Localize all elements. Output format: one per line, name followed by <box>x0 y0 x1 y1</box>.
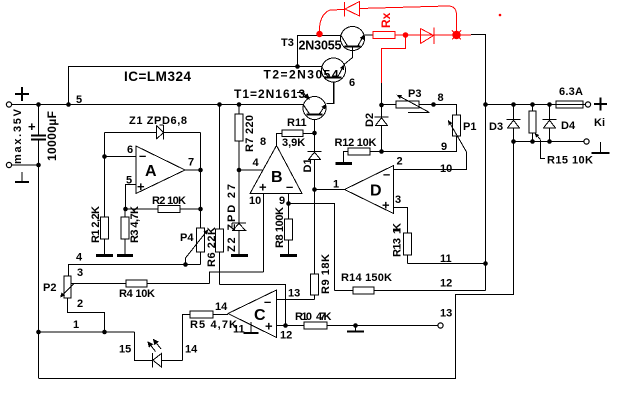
svg-text:D2: D2 <box>364 113 376 127</box>
svg-text:3: 3 <box>395 194 401 206</box>
resistor R7 220 <box>235 105 243 223</box>
ground output <box>592 142 610 153</box>
node ground tap <box>353 323 358 328</box>
label D4 <box>561 120 576 132</box>
svg-text:R15 10K: R15 10K <box>547 155 593 167</box>
node pin4 <box>237 168 242 173</box>
svg-text:–: – <box>264 294 271 309</box>
label Rx red <box>379 12 393 28</box>
op-amp U1A triangle <box>136 146 185 194</box>
svg-text:R5 4,7K: R5 4,7K <box>190 319 237 331</box>
op-amp U1C triangle <box>228 290 277 338</box>
label cap polarity + <box>28 119 36 134</box>
label R8 100K <box>274 207 286 248</box>
ground R8 <box>280 254 297 257</box>
terminal + output <box>585 98 607 111</box>
label 9 node <box>441 141 447 153</box>
label 4 pin <box>253 157 260 169</box>
svg-text:–: – <box>286 179 293 194</box>
diode D1 <box>308 133 322 190</box>
ground R10 <box>347 326 364 332</box>
zener Z2 ZPD27 <box>232 223 247 255</box>
svg-text:7: 7 <box>188 157 194 169</box>
wire 0V return loop <box>39 142 514 379</box>
arrow R15 wiper <box>535 133 539 138</box>
wire jog to B pin10 <box>210 272 264 284</box>
label 11 pin <box>233 324 245 336</box>
label 10 node <box>440 163 452 175</box>
wire red down to D2 <box>382 35 406 83</box>
terminal 13 <box>438 323 443 328</box>
label 1 node <box>73 319 79 331</box>
node R12/D2 bottom <box>379 149 384 154</box>
label C plus <box>265 319 273 334</box>
svg-text:D: D <box>370 183 382 200</box>
svg-text:12: 12 <box>440 278 452 290</box>
label 3 pin <box>395 194 401 206</box>
node op-amp A pin6 <box>102 154 107 159</box>
svg-text:6: 6 <box>127 144 133 156</box>
arrow LED light 1 <box>148 342 156 352</box>
arrow P4 wiper <box>204 229 209 234</box>
node 11 junction <box>483 261 488 266</box>
svg-text:IC=LM324: IC=LM324 <box>124 69 191 84</box>
node red on T3 base wire <box>316 31 322 37</box>
label Z2 ZPD 27 <box>226 184 238 252</box>
resistor R13 1K <box>404 233 412 264</box>
label B minus <box>286 179 293 194</box>
wire - terminal to cap <box>12 164 39 166</box>
label D plus <box>382 198 390 213</box>
svg-text:9: 9 <box>279 195 285 207</box>
label 2N3055 <box>299 39 342 53</box>
svg-text:R12 10K: R12 10K <box>335 137 377 149</box>
svg-text:A: A <box>145 163 157 180</box>
wire T1 base lead <box>314 120 316 134</box>
op-amp U1B triangle <box>250 146 302 194</box>
node P4 wiper tap <box>183 262 188 267</box>
svg-text:1: 1 <box>333 179 339 191</box>
wire node 11 <box>408 263 486 265</box>
svg-text:3: 3 <box>77 267 83 279</box>
wire pin 7 output <box>185 169 201 171</box>
label 12 node <box>440 278 452 290</box>
label 8 pin <box>260 136 266 148</box>
wire Z1 left to pin6 column <box>104 133 106 218</box>
svg-text:14: 14 <box>215 301 228 313</box>
ground C pin11 <box>244 322 259 333</box>
svg-text:B: B <box>271 169 283 186</box>
pointer R15 label <box>541 140 546 159</box>
ground input <box>15 172 29 182</box>
label Ki <box>594 117 605 129</box>
svg-text:12: 12 <box>280 330 292 342</box>
node pin 12 <box>283 323 288 328</box>
wire red top to right corner <box>360 6 457 35</box>
svg-text:–: – <box>383 167 390 182</box>
label 6 <box>127 144 133 156</box>
label D3 <box>489 121 503 133</box>
wire pin 9 lead <box>288 194 290 204</box>
label 4 node <box>76 252 83 264</box>
arrow LED light 2 <box>154 340 162 350</box>
svg-text:D1: D1 <box>302 158 314 172</box>
wire P1 bottom node 9 <box>382 136 457 152</box>
ground R12 <box>336 162 353 165</box>
svg-text:T2=2N3054: T2=2N3054 <box>264 68 339 82</box>
svg-text:47K: 47K <box>316 311 332 323</box>
node 8 wire <box>431 102 436 107</box>
svg-text:9: 9 <box>441 141 447 153</box>
resistor R14 150K <box>335 287 486 294</box>
node T1 base / R11 / D1 <box>312 131 317 136</box>
op-amp U1D triangle <box>345 166 394 214</box>
label T3 <box>281 37 294 49</box>
node cap bottom <box>36 163 41 168</box>
label 6.3A <box>559 86 583 98</box>
wire pin 6 <box>105 156 137 158</box>
label R1 2,2K <box>90 206 102 243</box>
wire black output top <box>471 35 486 291</box>
svg-text:8: 8 <box>260 136 266 148</box>
node R6 column top <box>217 102 222 107</box>
svg-text:4: 4 <box>253 157 260 169</box>
label C minus <box>264 294 271 309</box>
label 8 node <box>438 92 444 104</box>
label R7 220 <box>244 115 256 152</box>
resistor R8 100K <box>285 204 293 255</box>
label R5 4,7K <box>190 319 237 331</box>
svg-text:T1=2N1613: T1=2N1613 <box>234 87 305 101</box>
LED indicator <box>153 353 183 368</box>
label P4 <box>180 232 194 244</box>
label R14 150K <box>341 272 392 284</box>
node R15 top <box>530 102 535 107</box>
label R15 10K <box>547 155 593 167</box>
diode D4 <box>543 105 557 142</box>
label 2 node <box>77 298 83 310</box>
svg-text:R6 22K: R6 22K <box>206 227 218 267</box>
svg-text:2: 2 <box>77 298 83 310</box>
label R9 18K <box>320 254 332 294</box>
node D4 top <box>547 102 552 107</box>
resistor R3 4,7K <box>121 209 129 255</box>
svg-text:T3: T3 <box>281 37 294 49</box>
zener Z1 <box>105 125 201 140</box>
label max.35V <box>12 108 24 164</box>
wire T3 collector drop <box>298 36 342 67</box>
terminal - input <box>6 162 11 167</box>
node red Rx/D2 tap <box>403 32 409 38</box>
svg-text:+: + <box>265 319 273 334</box>
label 3,9K <box>282 137 305 149</box>
svg-text:R7 220: R7 220 <box>244 115 256 152</box>
svg-text:Z1 ZPD6,8: Z1 ZPD6,8 <box>129 115 187 127</box>
resistor R4 10K <box>126 280 210 287</box>
node D2 / P3 <box>379 103 384 108</box>
transistor T1 2N1613 <box>303 83 334 120</box>
node wire1/wire2 <box>102 330 107 335</box>
svg-text:2: 2 <box>397 156 403 168</box>
resistor R5 4,7K <box>190 311 228 318</box>
arrow P1 wiper <box>448 120 452 125</box>
wire output minus row <box>514 141 584 143</box>
label R12 10K <box>335 137 377 149</box>
svg-text:D3: D3 <box>489 121 503 133</box>
pointer T1 label arrow <box>297 93 309 100</box>
svg-text:D4: D4 <box>561 120 576 132</box>
label 15 node <box>119 344 131 356</box>
svg-text:R14 150K: R14 150K <box>341 272 392 284</box>
speck red stray <box>499 14 502 17</box>
svg-text:Ki: Ki <box>594 117 605 129</box>
label 14 pin <box>215 301 228 313</box>
svg-text:15: 15 <box>119 344 131 356</box>
wire node9 to R14 column <box>289 204 335 291</box>
wire pin 10 lead down <box>263 194 265 273</box>
node D3 top <box>511 102 516 107</box>
label R3 4,7K <box>129 206 141 243</box>
resistor R11 3,9K <box>282 130 315 137</box>
svg-text:2N3055: 2N3055 <box>299 39 342 53</box>
label 13 node <box>440 308 452 320</box>
resistor R1 2,2K <box>101 157 109 255</box>
wire pin 2 / node 10 <box>394 152 467 170</box>
wire node to P3 <box>382 104 397 106</box>
arrow P2 wiper <box>60 292 65 297</box>
wire output rail <box>486 104 557 106</box>
node pin5/R2/R3 <box>123 207 128 212</box>
label P1 <box>463 121 476 133</box>
svg-text:R3 4,7K: R3 4,7K <box>129 206 141 243</box>
wire LED to R5 <box>183 315 191 361</box>
wire pin 4 <box>239 169 263 171</box>
label T2=2N3054 <box>264 68 339 82</box>
wire red bypass from T3 base up <box>319 10 344 34</box>
arrow T1 emitter <box>321 104 326 109</box>
wire down to LED row <box>135 332 153 361</box>
wire T2 base lead <box>327 83 334 104</box>
node red output junction <box>452 31 461 40</box>
label B <box>271 169 283 186</box>
svg-text:R4 10K: R4 10K <box>119 288 155 300</box>
label D2 <box>364 113 376 127</box>
label C <box>254 307 266 324</box>
wire main +35V rail <box>12 104 304 106</box>
resistor R2 <box>126 206 201 213</box>
svg-text:11: 11 <box>233 324 245 336</box>
wire P3 to P1 top <box>419 105 457 116</box>
diode red mid (pointing right) <box>421 28 435 45</box>
resistor Rx red <box>373 32 395 39</box>
wire T3 emitter to Rx <box>364 34 373 36</box>
svg-text:P4: P4 <box>180 232 194 244</box>
node pin7 <box>198 168 203 173</box>
terminal - output <box>584 139 589 144</box>
label 3 node <box>77 267 83 279</box>
label R10 47K <box>295 311 332 323</box>
terminal + input <box>6 87 29 107</box>
potentiometer P1 <box>449 115 467 152</box>
wire pin 8 to R11 <box>277 134 283 146</box>
label R11 <box>287 117 307 129</box>
wire node 3 / R4 <box>71 283 126 285</box>
svg-text:R13: R13 <box>392 238 404 257</box>
label D <box>370 183 382 200</box>
svg-text:10: 10 <box>440 163 452 175</box>
svg-text:max.35V: max.35V <box>12 108 24 164</box>
wire node 1 <box>39 331 135 333</box>
svg-text:P1: P1 <box>463 121 476 133</box>
svg-text:R9 18K: R9 18K <box>320 254 332 294</box>
transistor T2 2N3054 <box>322 47 353 83</box>
svg-text:11: 11 <box>440 253 452 265</box>
svg-text:P2: P2 <box>43 282 56 294</box>
label 1 pin <box>333 179 339 191</box>
svg-text:R1 2,2K: R1 2,2K <box>90 206 102 243</box>
label R13 1K <box>392 223 404 257</box>
label IC=LM324 <box>124 69 191 84</box>
label 6 node <box>349 77 355 89</box>
potentiometer P4 <box>186 228 207 265</box>
label R6 22K <box>206 227 218 267</box>
label 9 pin <box>279 195 285 207</box>
svg-text:+: + <box>137 179 145 194</box>
resistor R9 18K <box>311 160 319 300</box>
label 12 pin <box>280 330 292 342</box>
fuse 6.3A <box>556 101 586 108</box>
node wire1 left <box>36 330 41 335</box>
svg-text:R10: R10 <box>295 311 312 323</box>
svg-text:6.3A: 6.3A <box>559 86 583 98</box>
label A plus <box>137 179 145 194</box>
node cap top <box>36 102 41 107</box>
node rail drop <box>66 102 71 107</box>
wire feedback column x200 <box>200 133 202 229</box>
svg-text:+: + <box>382 198 390 213</box>
node pin9 <box>286 201 291 206</box>
node R7 top <box>237 102 242 107</box>
node R15 bottom <box>530 139 535 144</box>
wire R6 bottom to C pin12 column <box>220 285 286 326</box>
resistor R12 10K <box>344 148 382 163</box>
svg-text:P3: P3 <box>408 88 421 100</box>
label P3 <box>408 88 421 100</box>
diode D2 <box>375 117 389 152</box>
label A minus <box>139 148 146 163</box>
capacitor C1 10000uF <box>31 105 46 379</box>
label 11 node <box>440 253 452 265</box>
wire node 4 horizontal <box>69 265 201 277</box>
label D minus <box>383 167 390 182</box>
svg-text:13: 13 <box>288 288 300 300</box>
svg-text:10: 10 <box>249 195 261 207</box>
arrow P3 wiper <box>397 95 402 99</box>
label A <box>145 163 157 180</box>
ground R3 <box>117 254 133 257</box>
transistor T3 2N3055 <box>341 27 365 51</box>
label 2 pin <box>397 156 403 168</box>
trimmer R15 <box>529 105 541 142</box>
label 13 pin <box>288 288 300 300</box>
wire D2 black segment <box>381 83 383 117</box>
svg-text:6: 6 <box>349 77 355 89</box>
resistor R6 22K <box>216 105 224 285</box>
label Z1 ZPD6,8 <box>129 115 187 127</box>
diode red top (pointing left) <box>345 2 360 17</box>
diode D3 <box>507 105 521 142</box>
label 7 <box>188 157 194 169</box>
svg-text:+: + <box>259 180 267 195</box>
svg-text:1: 1 <box>73 319 79 331</box>
arrow T3 emitter <box>360 35 364 40</box>
svg-text:R11: R11 <box>287 117 307 129</box>
wire node 2 <box>68 298 105 332</box>
label 5 pin <box>126 175 132 187</box>
label 14 node right <box>185 344 198 356</box>
label T1=2N1613 <box>234 87 305 101</box>
svg-text:R8 100K: R8 100K <box>274 207 286 248</box>
label P2 <box>43 282 56 294</box>
label 10 pin <box>249 195 261 207</box>
svg-text:14: 14 <box>185 344 198 356</box>
wire pin 12 <box>277 325 286 327</box>
label R4 10K <box>119 288 155 300</box>
node R2 right <box>198 207 203 212</box>
svg-text:–: – <box>139 148 146 163</box>
svg-text:1K: 1K <box>392 223 404 234</box>
svg-text:Rx: Rx <box>379 12 393 28</box>
potentiometer P2 <box>61 276 74 298</box>
node D1 bottom / D output <box>312 187 317 192</box>
label D1 <box>302 158 314 172</box>
label R2 10K <box>152 195 186 207</box>
label B plus <box>259 180 267 195</box>
potentiometer P3 <box>396 96 430 113</box>
svg-text:3,9K: 3,9K <box>282 137 305 149</box>
svg-text:10000µF: 10000µF <box>45 111 59 161</box>
wire red Rx output <box>395 34 471 36</box>
arrow T2 emitter <box>340 65 344 71</box>
ground Z2 <box>231 254 248 257</box>
node D3 bottom <box>511 139 516 144</box>
node junction rail/T3 drop <box>295 64 300 69</box>
svg-text:4: 4 <box>76 252 83 264</box>
label 10000uF <box>45 111 59 161</box>
svg-text:13: 13 <box>440 308 452 320</box>
wire pin 13 <box>277 299 315 301</box>
svg-text:Z2 ZPD 27: Z2 ZPD 27 <box>226 184 238 252</box>
wire pin 5 <box>126 185 137 210</box>
node rail right top <box>483 102 488 107</box>
wire pin 3 to R13 <box>394 208 408 234</box>
wire D output pin 1 <box>315 189 345 191</box>
svg-text:8: 8 <box>438 92 444 104</box>
svg-text:+: + <box>28 119 36 134</box>
resistor R10 47K <box>286 322 439 329</box>
node D4 bottom <box>547 139 552 144</box>
wire upper V+ rail (IC supply) <box>69 67 322 105</box>
label node 5 <box>76 94 82 106</box>
ground R1 <box>96 254 113 257</box>
